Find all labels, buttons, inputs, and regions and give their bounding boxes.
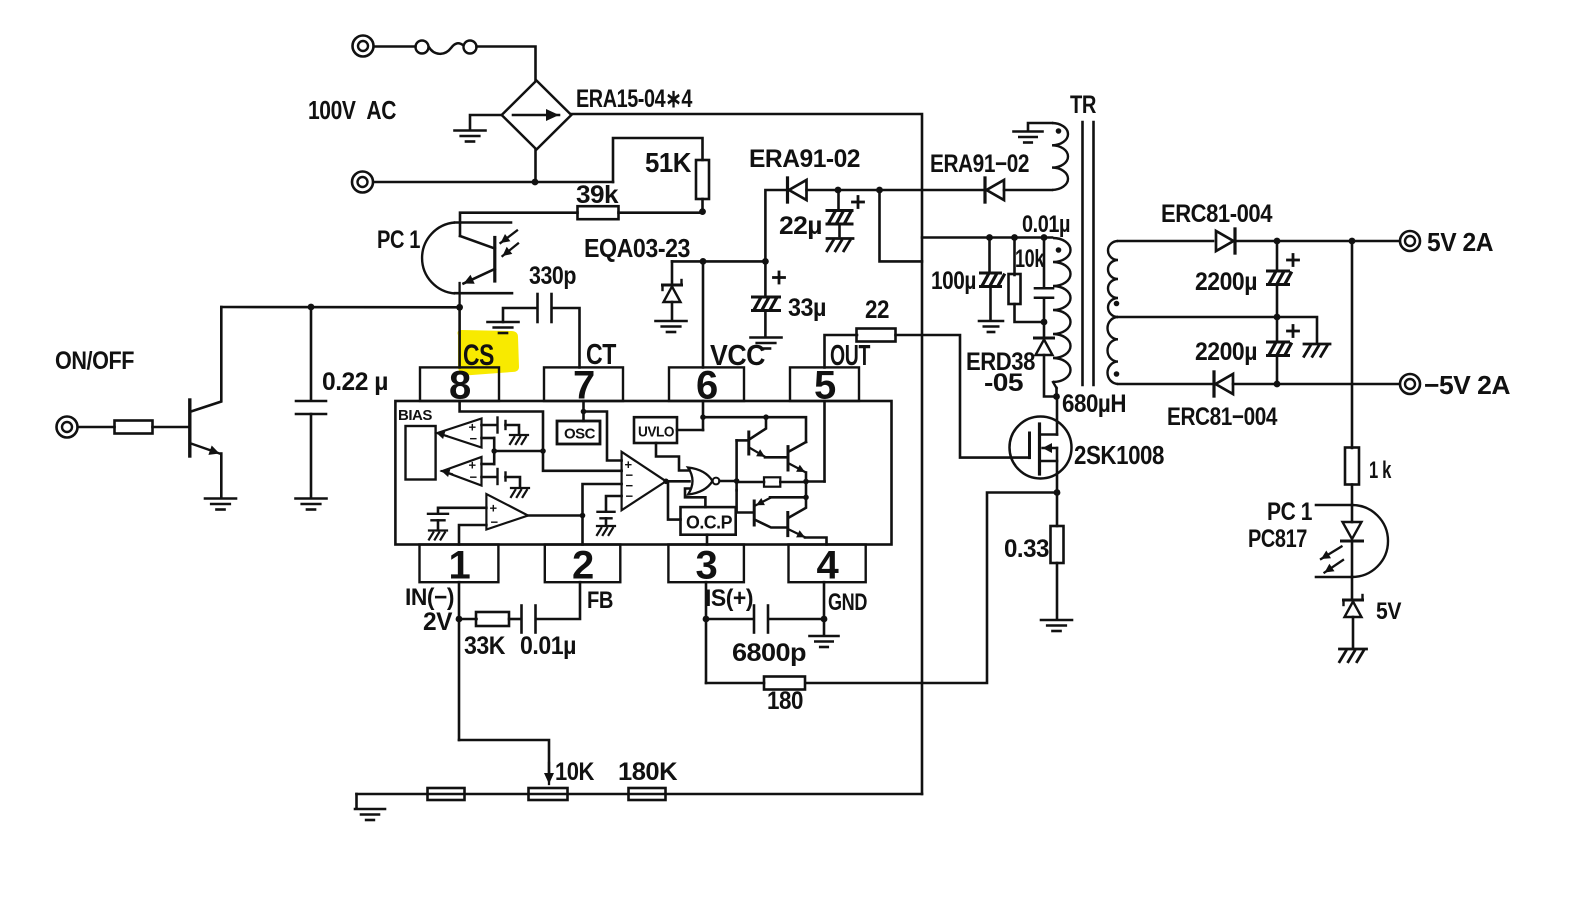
junction bias inputs <box>491 448 497 454</box>
junction PWM output <box>663 479 669 485</box>
wire ON/OFF top rail <box>221 306 459 309</box>
junction VCC/51K <box>700 258 707 265</box>
diode ERD38-05 <box>1043 322 1046 337</box>
junction source <box>1054 489 1061 496</box>
wire -5V rail 2 <box>1233 383 1398 386</box>
svg-text:ERA91−02: ERA91−02 <box>930 150 1029 178</box>
comparator (bias B) <box>443 457 482 486</box>
svg-text:−: − <box>491 515 499 530</box>
svg-text:GND: GND <box>828 589 867 616</box>
junction drain/winding <box>1053 393 1060 400</box>
transistor internal Q3 <box>753 501 756 525</box>
error amplifier <box>486 494 528 530</box>
junction 0.22u tap <box>308 304 315 311</box>
wire CS pin lead <box>458 307 461 367</box>
wire fuse to bridge <box>477 47 536 81</box>
svg-text:4: 4 <box>817 544 840 588</box>
capacitor 0.22u <box>310 307 313 401</box>
comparator (bias A) <box>438 419 482 448</box>
svg-text:33µ: 33µ <box>788 294 826 322</box>
pin box 5 <box>790 367 859 401</box>
bridge rectifier ERA15-04*4 <box>502 81 572 150</box>
svg-text:2V: 2V <box>423 608 453 636</box>
svg-text:PC 1: PC 1 <box>1267 498 1312 526</box>
svg-text:10k: 10k <box>1015 245 1044 273</box>
wire Q2/Q4 node <box>805 482 808 498</box>
svg-text:-05: -05 <box>984 369 1024 397</box>
svg-text:22: 22 <box>865 296 889 324</box>
junction 2200u mid <box>1274 314 1281 321</box>
ground (center tap) <box>1304 343 1330 346</box>
wire 39k right <box>619 211 703 214</box>
svg-text:330p: 330p <box>529 262 576 290</box>
zener 5V <box>1344 599 1363 602</box>
junction clamp bottom <box>1041 319 1048 326</box>
resistor 0.33 <box>1056 493 1059 527</box>
wire OCP to pin3 <box>706 535 709 545</box>
resistor 180 <box>764 677 805 690</box>
capacitor 0.01u (clamp) <box>1043 238 1046 289</box>
wire FB internal <box>581 516 584 545</box>
wire CS internal <box>460 401 622 471</box>
svg-text:100V AC: 100V AC <box>308 95 397 125</box>
transistor internal Q4 <box>786 513 789 536</box>
svg-text:5V: 5V <box>1376 598 1401 625</box>
wire to Q3 base <box>737 490 754 512</box>
fuse F1 <box>374 45 416 48</box>
junction feedback tap <box>1349 238 1356 245</box>
junction 0.01u <box>1041 234 1048 241</box>
wire -5V rail <box>1118 383 1213 386</box>
wire CS to bias comparators <box>494 450 543 453</box>
svg-text:O.C.P: O.C.P <box>686 513 732 533</box>
ground (shield winding) <box>1014 130 1043 133</box>
svg-text:BIAS: BIAS <box>398 407 432 424</box>
ground (100u) <box>979 320 1003 323</box>
junction bridge bottom <box>532 179 539 186</box>
svg-text:100µ: 100µ <box>931 267 976 295</box>
ground (divider) <box>355 808 385 811</box>
svg-text:1 k: 1 k <box>1369 457 1392 484</box>
resistor internal <box>764 477 780 486</box>
wire center tap <box>1118 317 1317 342</box>
junction VCC/33u/diode <box>762 258 769 265</box>
svg-text:0.01µ: 0.01µ <box>520 632 576 660</box>
junction PC1 emitter / CS <box>456 304 463 311</box>
wire VCC top rail <box>703 417 806 442</box>
wire gate low input / OCP <box>685 489 705 508</box>
pin box 1 <box>420 545 499 583</box>
diode ERC81-004 (+5V) <box>1233 229 1236 253</box>
plus (2200u bottom) <box>1288 330 1299 333</box>
junction 2V node <box>456 616 463 623</box>
wire CT internal <box>582 401 585 421</box>
primary winding top (shield) <box>1028 123 1052 130</box>
svg-text:EQA03-23: EQA03-23 <box>584 233 690 263</box>
capacitor 0.01u (FB) <box>520 606 523 633</box>
junction CS internal <box>540 448 546 454</box>
junction 2200u bottom <box>1274 381 1281 388</box>
capacitor 22u <box>837 190 840 210</box>
wire OUT pin lead <box>825 335 858 367</box>
svg-text:OSC: OSC <box>564 426 596 443</box>
wire +5V rail 2 <box>1235 240 1399 243</box>
wire IS to 180 <box>706 682 764 685</box>
transistor Q1 <box>188 400 191 456</box>
resistor 51K <box>696 160 709 199</box>
wire bottom rail <box>357 793 923 796</box>
svg-text:0.22 µ: 0.22 µ <box>322 368 388 396</box>
transistor internal Q1 <box>747 432 750 454</box>
svg-text:6: 6 <box>696 364 718 408</box>
svg-text:2200µ: 2200µ <box>1195 338 1257 366</box>
wire NOR output <box>720 480 737 483</box>
ground (bridge AC input) <box>455 129 486 132</box>
svg-text:−: − <box>470 431 478 446</box>
ground (0.22u) <box>296 497 327 500</box>
wire 22 to gate node <box>896 335 1030 458</box>
wire source sense <box>806 493 1058 684</box>
wire DC bus top <box>571 114 922 794</box>
junction OUT node <box>803 479 809 485</box>
svg-text:680µH: 680µH <box>1062 390 1126 418</box>
junction CT internal <box>581 409 587 415</box>
wire 39k left to PC1 collector <box>460 213 578 236</box>
diode ERC81-004 (-5V) <box>1212 372 1215 396</box>
wire 51K to node <box>701 199 704 212</box>
cap/gnd (bias A input) <box>482 424 498 427</box>
junction aux node <box>876 187 883 194</box>
wire CT to PWM comparator <box>584 412 622 461</box>
PWM comparator <box>622 452 666 510</box>
junction lower pair <box>803 495 809 501</box>
svg-text:6800p: 6800p <box>732 639 806 667</box>
transformer core <box>1081 122 1084 385</box>
wire VCC node rail <box>672 260 765 263</box>
junction 22u <box>835 187 842 194</box>
wire to resistor <box>78 426 115 429</box>
ground (zener) <box>1340 648 1367 651</box>
light arrows from LED <box>1321 547 1342 560</box>
transistor 2SK1008 <box>1010 417 1072 479</box>
wire diode1 to nodes <box>807 189 985 192</box>
resistor 180K <box>629 788 666 800</box>
wire PWM out to gate <box>666 480 690 483</box>
svg-text:−: − <box>470 470 478 485</box>
wire pin1 lead <box>458 582 461 740</box>
junction Q1 collector rail <box>763 414 769 420</box>
svg-text:33K: 33K <box>464 632 505 660</box>
wire bridge left to ground <box>470 115 502 129</box>
wire error amp output <box>528 514 583 517</box>
svg-text:22µ: 22µ <box>779 212 822 240</box>
capacitor 2200u (+5V) <box>1276 241 1279 270</box>
svg-text:PC817: PC817 <box>1248 525 1307 553</box>
cap/gnd (bias B input) <box>482 476 498 479</box>
wire PWM out to OCP <box>668 481 681 519</box>
junction 100u <box>986 234 993 241</box>
svg-text:5V 2A: 5V 2A <box>1427 227 1494 257</box>
junction 51K/39k node <box>699 208 706 215</box>
light arrows into PC1 <box>501 231 518 244</box>
ground (33u) <box>751 336 782 339</box>
wire AC bottom line <box>374 181 614 184</box>
optocoupler PC1 phototransistor <box>422 223 455 294</box>
CS highlight <box>458 330 520 375</box>
polarity dot (primary) <box>1056 247 1062 253</box>
wire OUT internal <box>806 480 825 483</box>
plus (33u) <box>774 276 785 279</box>
block UVLO <box>634 417 677 443</box>
svg-text:ERC81−004: ERC81−004 <box>1167 403 1277 431</box>
wire bridge bottom leg <box>534 150 537 183</box>
junction IS node <box>703 616 710 623</box>
wire 1k to LED <box>1351 485 1354 506</box>
resistor 33K <box>459 618 477 621</box>
svg-text:ERA15-04∗4: ERA15-04∗4 <box>576 85 692 113</box>
wire VCC pin lead <box>702 261 705 367</box>
capacitor 6800p <box>706 618 754 621</box>
pin box 3 <box>668 545 744 583</box>
svg-text:180: 180 <box>767 687 803 715</box>
svg-text:2200µ: 2200µ <box>1195 268 1257 296</box>
wire +5V rail <box>1118 240 1213 243</box>
junction VCC internal <box>700 414 706 420</box>
svg-text:ERC81-004: ERC81-004 <box>1161 200 1273 228</box>
junction 2200u top <box>1274 238 1281 245</box>
junction 10k <box>1011 234 1018 241</box>
junction driver <box>734 478 740 484</box>
secondary winding +5V <box>1108 241 1118 317</box>
svg-text:IN(−): IN(−) <box>405 584 454 611</box>
svg-text:PC 1: PC 1 <box>377 226 420 254</box>
svg-text:51K: 51K <box>645 147 691 178</box>
svg-text:IS(+): IS(+) <box>705 585 753 612</box>
wire IN- internal <box>459 525 486 545</box>
wire clamp rail <box>922 236 1052 239</box>
wire diode1 anode path <box>765 190 786 261</box>
svg-text:2: 2 <box>572 544 594 588</box>
diode ERA91-02 (aux) <box>983 178 986 202</box>
polarity dot (sec bottom) <box>1114 371 1120 377</box>
plus (22u) <box>853 201 864 204</box>
wire driver node <box>735 440 738 490</box>
wire VCC internal <box>702 401 705 430</box>
diode ERA91-02 (VCC) <box>786 178 789 202</box>
ground (pin4) <box>823 619 826 635</box>
svg-text:2SK1008: 2SK1008 <box>1074 440 1164 470</box>
svg-text:10K: 10K <box>555 758 594 786</box>
wire to Q1 base <box>737 439 748 442</box>
wire diode2 to primary <box>1004 189 1052 192</box>
svg-text:180K: 180K <box>618 758 677 786</box>
pin box 2 <box>545 545 621 583</box>
svg-text:39k: 39k <box>576 181 619 209</box>
optocoupler PC1 LED <box>1316 504 1352 507</box>
wire to Q1 base <box>153 426 189 429</box>
wire 51K feed loop <box>613 138 703 182</box>
terminal +5V <box>1400 231 1420 251</box>
ground (EQA03-23) <box>656 320 687 323</box>
resistor 1k <box>1345 448 1359 485</box>
bias block <box>406 426 436 480</box>
NOR gate <box>688 468 713 495</box>
oscillator OSC <box>557 421 600 444</box>
resistor 39k <box>578 206 619 219</box>
svg-text:−5V 2A: −5V 2A <box>1424 370 1511 400</box>
wire UVLO to gate <box>656 443 690 471</box>
pin box 8 <box>420 367 499 401</box>
capacitor 100u <box>988 238 991 273</box>
wire rail gnd stub <box>355 794 358 808</box>
pin box 6 <box>669 367 744 401</box>
wire divider feed <box>459 740 549 775</box>
terminal -5V <box>1400 374 1420 394</box>
pin box 4 <box>789 545 866 583</box>
resistor 22 (gate) <box>857 329 896 342</box>
cap/gnd (PWM comp input) <box>606 496 622 511</box>
svg-text:ERA91-02: ERA91-02 <box>749 145 860 173</box>
IC body EQA03-23 <box>395 401 891 545</box>
wire aux L to bus <box>880 190 923 261</box>
svg-text:+: + <box>490 501 498 516</box>
svg-text:0.01µ: 0.01µ <box>1022 211 1070 238</box>
plus (2200u top) <box>1288 259 1299 262</box>
svg-text:UVLO: UVLO <box>638 424 675 441</box>
svg-text:0.33: 0.33 <box>1004 535 1049 563</box>
resistor 10k (clamp) <box>1013 238 1016 276</box>
terminal ON/OFF <box>57 417 78 438</box>
ground (0.33) <box>1041 619 1072 622</box>
junction GND/6800p <box>821 616 828 623</box>
capacitor 330p <box>503 308 537 322</box>
wire pin3 lead <box>705 582 708 683</box>
capacitor 2200u (-5V) <box>1276 317 1279 341</box>
polarity dot (shield) <box>1056 128 1062 134</box>
wire bias inputs join <box>482 437 495 440</box>
pin box 7 <box>544 367 623 401</box>
ground (330p) <box>488 321 519 324</box>
arrow pot wiper <box>548 763 550 784</box>
potentiometer 10K <box>529 788 568 800</box>
svg-text:ON/OFF: ON/OFF <box>55 347 134 375</box>
secondary winding -5V <box>1108 317 1119 384</box>
polarity dot (sec top) <box>1114 301 1120 307</box>
block O.C.P <box>681 507 736 535</box>
svg-text:FB: FB <box>587 587 613 614</box>
ground (Q1 emitter) <box>205 497 236 500</box>
zener EQA03-23 <box>671 261 674 284</box>
transistor internal Q2 <box>787 447 790 470</box>
junction FB/error amp <box>580 513 586 519</box>
cap/gnd (error amp ref) <box>438 508 486 513</box>
svg-text:−: − <box>626 489 634 504</box>
resistor (ON/OFF base) <box>115 421 153 434</box>
primary winding 680uH <box>1053 238 1071 382</box>
terminal AC input top <box>353 36 374 57</box>
svg-text:TR: TR <box>1070 91 1096 119</box>
ground (22u) <box>827 237 853 240</box>
wire feedback drop <box>1351 241 1354 448</box>
terminal AC input bottom <box>352 172 373 193</box>
capacitor 33u <box>764 261 767 296</box>
resistor (rail left) <box>428 788 465 800</box>
